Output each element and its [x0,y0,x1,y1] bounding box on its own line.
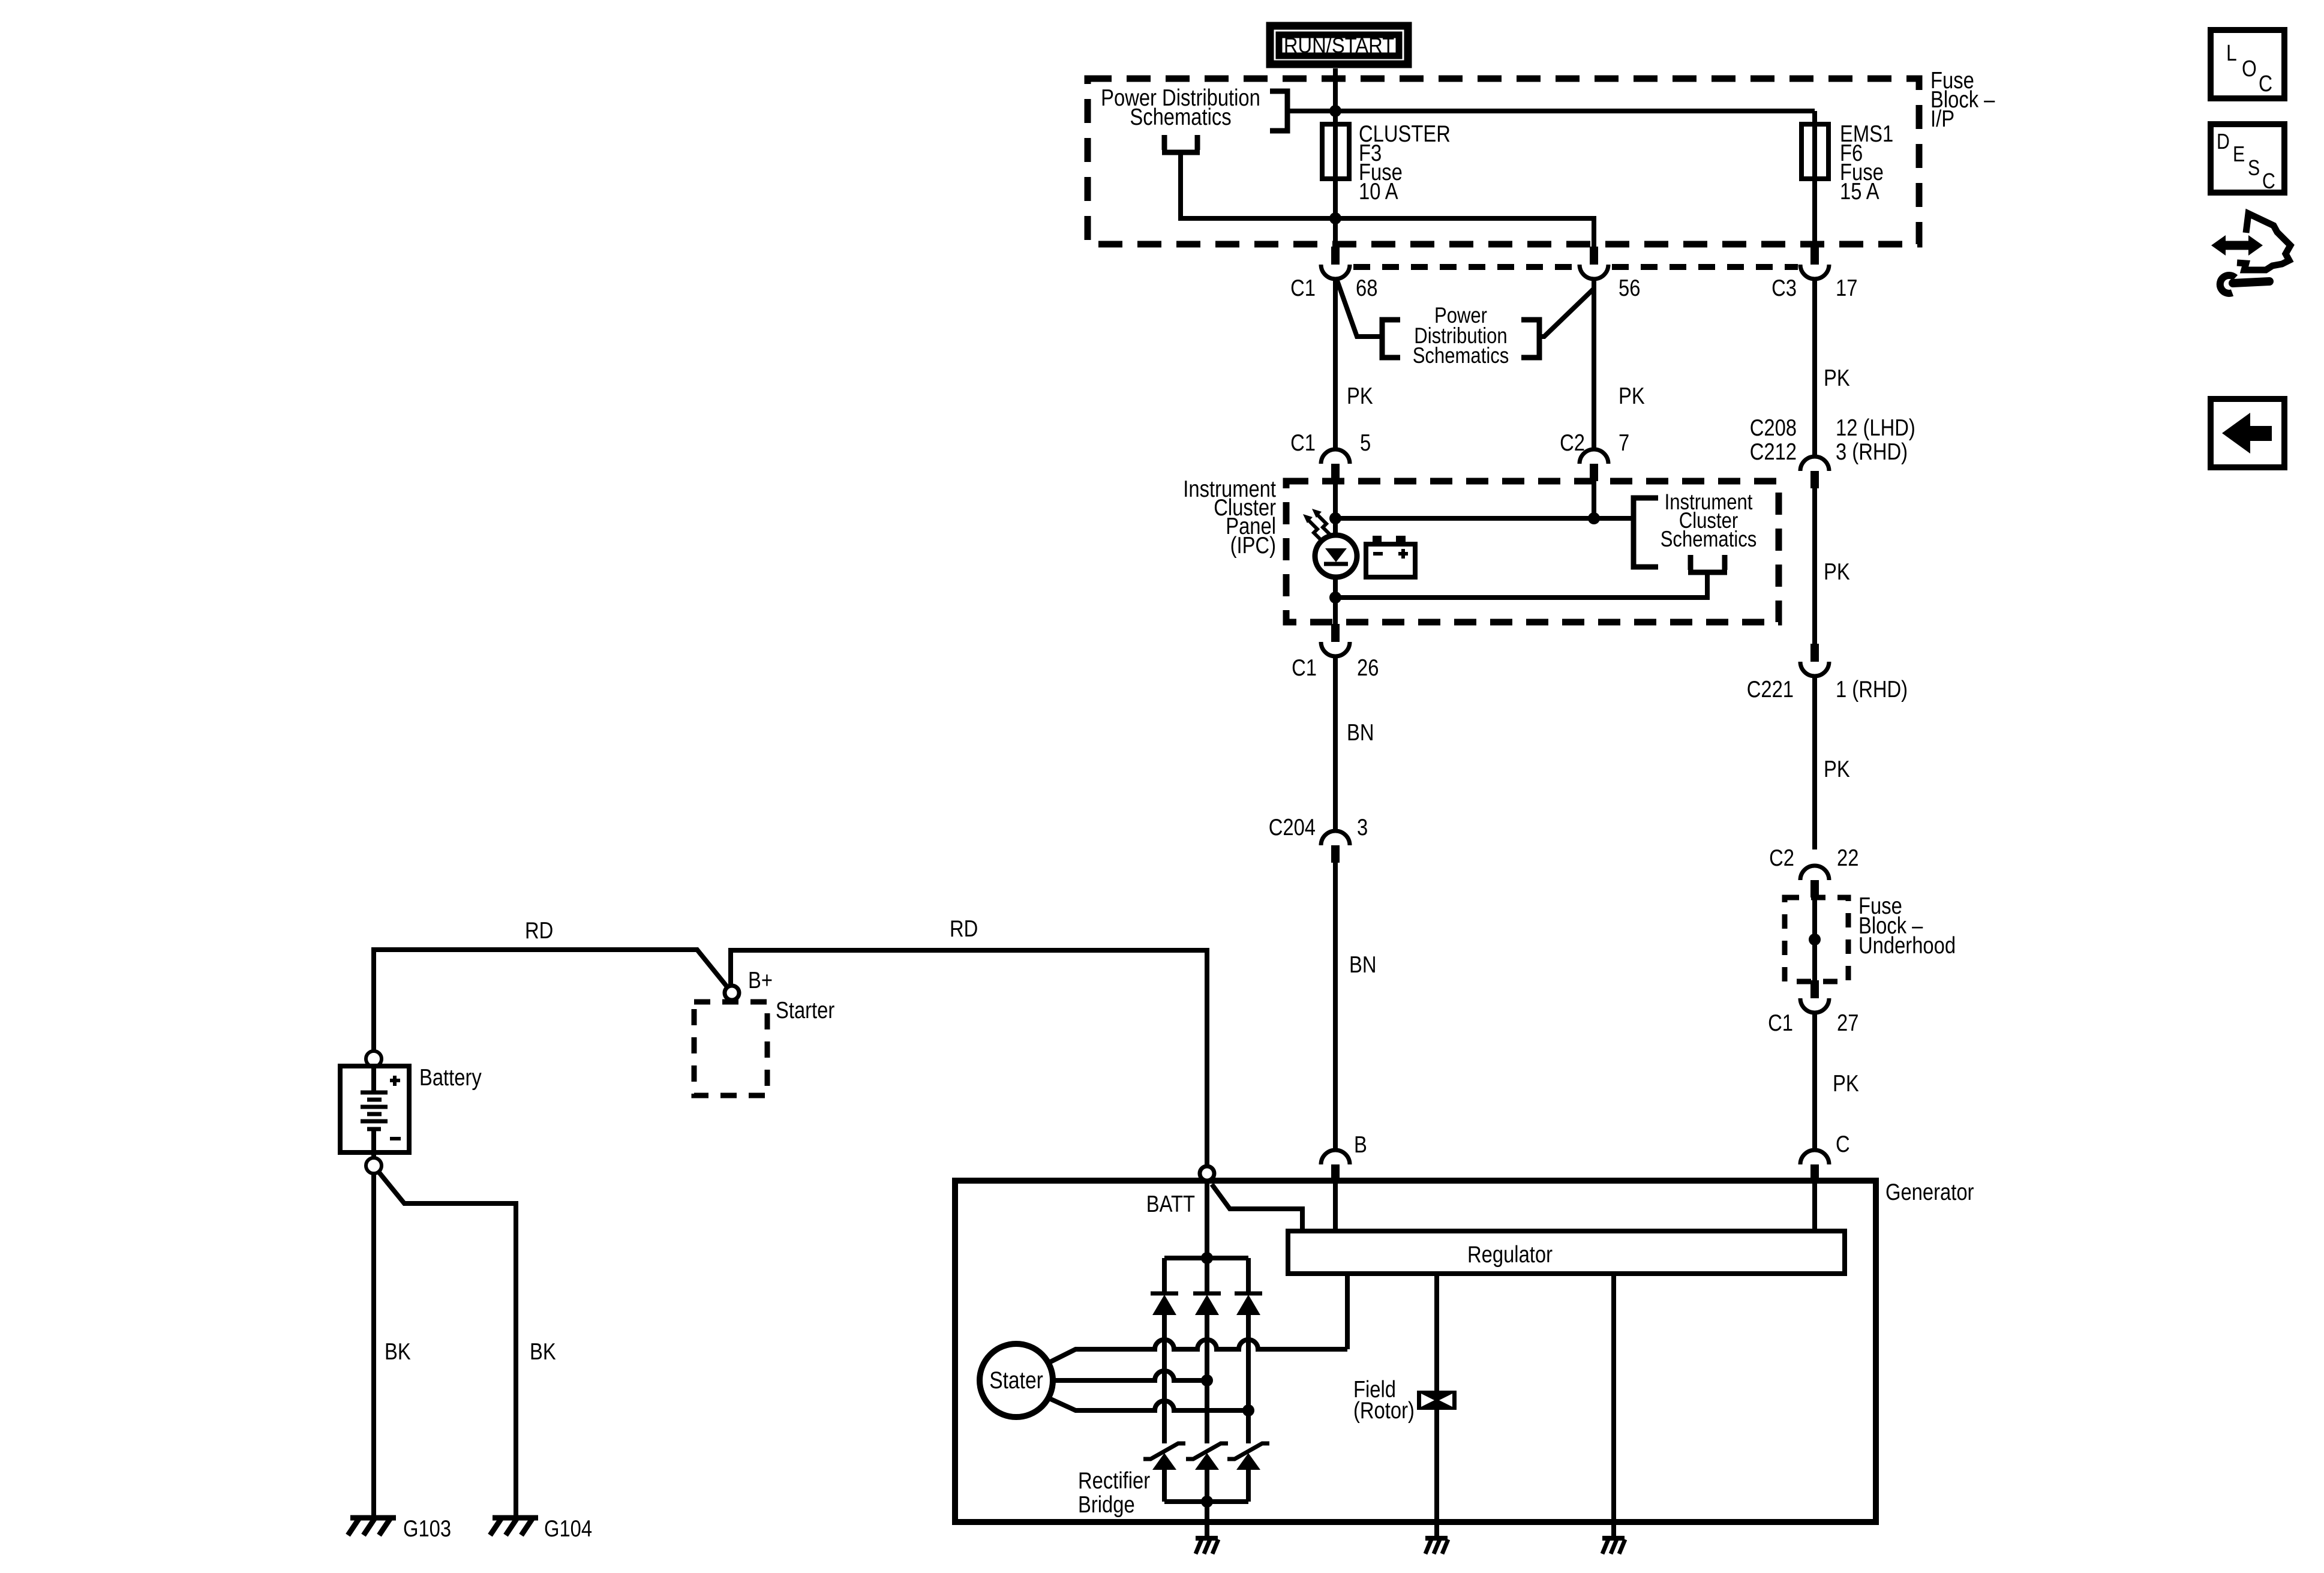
wire PK C208 to C221 [1812,488,1817,644]
svg-text:BK: BK [385,1338,411,1364]
svg-text:C212: C212 [1750,438,1797,464]
svg-text:BATT: BATT [1146,1190,1195,1217]
wire field to ground [1434,1410,1439,1522]
svg-text:Schematics: Schematics [1130,103,1231,130]
diagnostic tool icon: wrench [2220,275,2269,293]
rectifier columns upper [1164,1258,1248,1293]
Power Distribution Schematics label (middle) with brackets [1382,304,1539,368]
BATT terminal ring [1200,1166,1214,1181]
junction dot BATT rail [1201,1252,1213,1264]
wire RD starter to generator BATT [731,950,1207,1166]
battery icon inside IPC [1366,536,1415,577]
connector B [1321,1131,1367,1181]
svg-text:C1: C1 [1290,274,1316,301]
wire cluster fuse to C1-68 [1333,218,1338,247]
svg-text:G104: G104 [544,1515,592,1541]
connector C221 pin 1 (RHD) [1747,644,1908,703]
svg-text:5: 5 [1360,429,1371,455]
ground G103 [348,1515,451,1541]
svg-text:Generator: Generator [1885,1178,1974,1205]
junction dot bottom rail [1201,1496,1213,1508]
bottom avalanche diode 3 [1227,1443,1269,1470]
back arrow icon [2211,399,2284,467]
connector C2 pin 7 [1560,429,1629,481]
rectifier columns middle [1164,1315,1248,1443]
Rectifier Bridge label [1078,1467,1150,1517]
svg-text:C208: C208 [1750,414,1797,440]
svg-text:PK: PK [1619,382,1645,409]
battery negative wire BK to G103 [371,1173,376,1515]
rectifier bottom rail [1164,1499,1248,1504]
svg-text:C204: C204 [1269,813,1316,840]
svg-text:3 (RHD): 3 (RHD) [1836,438,1908,464]
svg-text:RD: RD [525,917,553,943]
IPC internal wire to Instrument Cluster Schematics bracket [1335,516,1631,521]
Fuse Block - Underhood dashed box [1785,897,1848,981]
diagnostic tool icon: double arrow [2211,235,2263,256]
svg-text:C1: C1 [1768,1009,1793,1035]
wire BN C204 to generator B [1333,863,1338,1151]
svg-text:Starter: Starter [776,996,834,1023]
wire through underhood fuse block [1812,897,1817,981]
connector C204 pin 3 [1269,813,1368,863]
connector C1 pin 26 [1292,624,1379,681]
starter B+ terminal ring [725,986,739,1000]
svg-text:B+: B+ [748,966,773,993]
IPC label [1183,475,1276,558]
svg-text:PK: PK [1824,558,1850,584]
svg-text:68: 68 [1356,274,1377,301]
connector C1 pin 68 [1290,247,1377,301]
connector C1 pin 5 [1290,429,1371,481]
rectifier columns lower [1164,1470,1248,1502]
svg-text:(Rotor): (Rotor) [1353,1397,1415,1423]
RUN/START power feed box [1270,26,1408,64]
battery positive wire RD [374,950,728,1051]
svg-text:E: E [2233,143,2245,167]
fuse block label: Fuse Block - I/P [1930,67,1995,131]
wire RUN/START to fuse block [1333,68,1338,111]
battery negative wire BK to G104 [378,1171,516,1515]
svg-text:1 (RHD): 1 (RHD) [1836,676,1908,702]
svg-text:15 A: 15 A [1840,178,1879,204]
wire regulator to stator sense line [1345,1274,1350,1349]
junction dot C2-7 [1588,512,1600,524]
fuse block I/P dashed box [1088,79,1919,244]
top diode 2 [1193,1293,1221,1315]
ground symbol under regulator [1602,1522,1625,1554]
Instrument Cluster Panel (IPC) dashed box [1286,481,1779,622]
stator circle [980,1344,1053,1417]
wire B to regulator [1333,1181,1338,1231]
svg-text:B: B [1354,1131,1367,1157]
svg-text:C3: C3 [1771,274,1797,301]
svg-text:Underhood: Underhood [1858,932,1956,958]
battery telltale LED indicator [1303,509,1357,577]
svg-text:10 A: 10 A [1359,178,1398,204]
svg-text:Battery: Battery [419,1064,482,1090]
field (rotor) symbol [1353,1376,1457,1423]
svg-text:C1: C1 [1292,654,1317,680]
wire LED to C1-26 [1333,577,1338,624]
ground G104 [490,1515,592,1541]
connector C3 pin 17 [1771,247,1857,301]
svg-text:PK: PK [1824,364,1850,391]
top diode 1 [1151,1293,1178,1315]
wire C3-17 down to C208 [1812,278,1817,455]
wire hook to lower distribution rail [1181,152,1594,247]
svg-text:(IPC): (IPC) [1230,532,1276,558]
svg-text:BN: BN [1347,719,1374,745]
svg-text:PK: PK [1833,1070,1859,1096]
junction dot lower rail [1329,212,1341,224]
svg-text:Regulator: Regulator [1467,1241,1553,1267]
svg-text:Schematics: Schematics [1661,527,1757,552]
svg-text:RD: RD [950,915,978,941]
svg-text:C: C [2259,71,2272,96]
regulator box [1288,1231,1845,1274]
svg-text:I/P: I/P [1930,105,1954,131]
svg-text:C1: C1 [1290,429,1316,455]
fuse EMS1 F6 15A [1801,111,1893,247]
junction dot phase B [1201,1374,1213,1386]
dashed connector-face line between C1-68 and 56 and C3 [1353,264,1577,270]
svg-text:BK: BK [530,1338,556,1364]
ground symbol under field [1425,1522,1448,1554]
junction dot LED bottom [1329,592,1341,604]
connector C208/C212 (right column) [1750,414,1915,488]
wire BATT to regulator [1212,1184,1302,1231]
hook bracket under Power Distribution Schematics [1162,135,1200,152]
stator phase A line to regulator [1048,1340,1347,1363]
svg-text:C: C [1836,1130,1850,1157]
svg-text:L: L [2226,40,2237,65]
wire hook down to LED bottom rail [1335,572,1707,598]
Power Distribution Schematics label (top, inside fuse block) [1101,84,1260,130]
ground symbol under rectifier [1196,1522,1218,1554]
bottom avalanche diode 1 [1143,1443,1185,1470]
connector C1 pin 27 [1768,980,1858,1036]
wire PK C221 to C2-22 [1812,675,1817,849]
diagonal C1-68 to PDS bracket [1337,279,1382,337]
top diode 3 [1235,1293,1262,1315]
battery [340,1051,482,1173]
svg-text:RUN/START: RUN/START [1284,34,1394,58]
svg-text:O: O [2242,56,2257,81]
wire C1-5 into IPC to LED [1333,481,1338,536]
wire 56 down to C2-7 [1592,278,1596,450]
connector pin 56 [1580,247,1640,301]
svg-text:3: 3 [1357,813,1368,840]
stator phase B line [1053,1371,1207,1380]
diagnostic tool icon: connector outline [2237,214,2290,270]
generator box [955,1181,1876,1522]
connector C [1800,1130,1850,1181]
wire C to regulator [1812,1181,1817,1231]
svg-text:7: 7 [1619,429,1629,455]
svg-text:C: C [2262,170,2275,194]
LOC reference icon [2211,30,2284,98]
svg-text:D: D [2217,130,2230,154]
junction dot in underhood box [1809,933,1821,945]
svg-text:Bridge: Bridge [1078,1491,1135,1517]
bottom avalanche diode 2 [1186,1443,1228,1470]
wire C2-7 into IPC [1592,481,1596,518]
wire regulator to field [1434,1274,1439,1391]
svg-text:12 (LHD): 12 (LHD) [1836,414,1915,440]
svg-text:PK: PK [1824,755,1850,782]
svg-text:Stater: Stater [989,1367,1043,1393]
svg-text:Schematics: Schematics [1413,344,1509,368]
wire bracket to EMS1 fuse branch [1287,109,1815,113]
svg-text:C2: C2 [1560,429,1585,455]
svg-text:22: 22 [1837,844,1858,870]
connector C2 pin 22 [1769,844,1858,897]
starter dashed box [694,1002,767,1095]
rectifier bridge top rail [1164,1256,1248,1260]
fuse CLUSTER F3 10A [1322,111,1451,218]
stator phase C line [1048,1398,1248,1410]
svg-text:G103: G103 [403,1515,451,1541]
Instrument Cluster Schematics label with bracket [1634,490,1756,572]
svg-text:17: 17 [1836,274,1857,301]
wire C1-68 down to C1-5 [1333,278,1338,450]
svg-text:Rectifier: Rectifier [1078,1467,1150,1493]
svg-text:27: 27 [1837,1009,1858,1035]
svg-text:BN: BN [1349,951,1376,977]
wire PK C1-27 to generator C [1812,1011,1817,1151]
bracket right of Power Distribution Schematics label [1270,91,1287,131]
svg-text:C221: C221 [1747,676,1794,702]
Fuse Block Underhood label [1858,892,1956,958]
junction dot LED top [1329,512,1341,524]
DESC reference icon [2211,124,2284,194]
junction dot phase C [1242,1404,1254,1416]
svg-text:PK: PK [1347,382,1373,409]
wire regulator to ground [1611,1274,1616,1522]
wire BN C1-26 to C204 [1333,655,1338,830]
svg-text:C2: C2 [1769,844,1794,870]
diagonal 56 to PDS bracket [1539,289,1594,337]
svg-text:56: 56 [1619,274,1640,301]
junction dot at RUN/START branch [1329,105,1341,117]
svg-text:S: S [2248,157,2260,181]
wire BATT to rectifier [1205,1181,1209,1258]
svg-text:26: 26 [1357,654,1379,680]
wire rectifier to ground [1205,1502,1209,1522]
